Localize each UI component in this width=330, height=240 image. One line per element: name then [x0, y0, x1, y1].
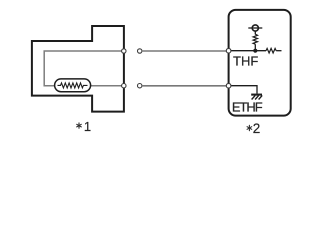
svg-text:1: 1: [84, 119, 91, 134]
internal wire loop of sensor *1: [44, 51, 124, 86]
pull-up resistor (vertical zigzag): [253, 34, 257, 44]
lead from internal resistor: [276, 50, 281, 52]
wire THF (harness): [142, 50, 228, 52]
wire from terminal to pull-up resistor: [254, 31, 256, 34]
svg-text:THF: THF: [233, 54, 258, 69]
terminal symbol (test terminal, circle with bar): [248, 25, 262, 31]
label *2 asterisk: [247, 125, 252, 130]
junction node THF: [253, 49, 257, 53]
svg-text:ETHF: ETHF: [232, 99, 263, 114]
wire from resistor to node THF: [254, 44, 256, 51]
terminal pin circle (harness side, wire THF): [138, 49, 142, 53]
internal resistor (horizontal zigzag): [266, 48, 276, 53]
ECU box *2 outline: [229, 10, 291, 116]
terminal pin circle (connector *1, pin THF): [122, 49, 126, 53]
pin circle ETHF (ECU side): [226, 83, 231, 88]
chassis ground: [251, 95, 262, 100]
internal wire ETHF: [229, 86, 257, 94]
svg-text:2: 2: [253, 121, 261, 136]
thermistor element body (oval): [55, 79, 91, 92]
terminal pin circle (harness side, wire ETHF): [138, 84, 142, 88]
label *1 asterisk: [77, 123, 82, 128]
internal wire THF: [229, 50, 266, 52]
pin circle THF (ECU side): [226, 48, 231, 53]
thermistor resistor zigzag: [58, 83, 88, 88]
connector housing *1 outline: [32, 26, 124, 112]
wire ETHF (harness): [142, 85, 228, 87]
terminal pin circle (connector *1, pin ETHF): [122, 84, 126, 88]
